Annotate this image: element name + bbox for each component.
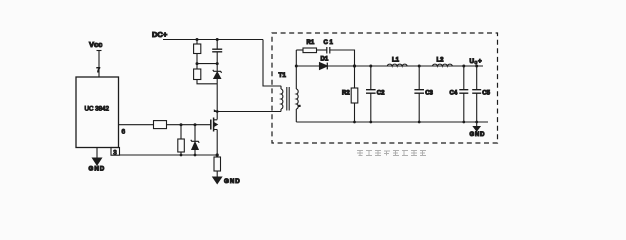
transformer T1 primary winding — [281, 86, 283, 112]
wire C4 top — [463, 66, 465, 90]
wire C2 top — [370, 66, 372, 90]
node C4 top — [462, 65, 465, 68]
node C3 top — [418, 65, 421, 68]
wire C2 bottom — [370, 93, 372, 122]
svg-text:C 1: C 1 — [324, 40, 334, 46]
svg-text:GND: GND — [470, 132, 486, 138]
svg-text:DC+: DC+ — [152, 30, 168, 39]
node between snubber resistors — [196, 62, 199, 65]
svg-text:D1: D1 — [321, 57, 329, 63]
pin 7 label — [97, 67, 101, 74]
svg-text:T1: T1 — [279, 72, 287, 79]
wire R1 to C1 — [317, 49, 327, 51]
wire gate resistor to MOSFET gate — [167, 124, 211, 126]
node Uo+ output terminal — [470, 58, 483, 66]
resistor R source (vertical) — [214, 157, 221, 171]
resistor R snub1 (vertical) — [194, 44, 201, 54]
wire C4 bottom — [463, 93, 465, 122]
transformer T1 label — [279, 72, 287, 79]
wire R snub2 bottom to clamp column — [197, 80, 217, 84]
svg-text:L1: L1 — [392, 58, 400, 64]
Vcc label — [89, 40, 102, 49]
wire R snub1 to R snub2 — [196, 54, 198, 70]
wire lower rail from pin 3 to source — [120, 154, 218, 156]
dashed output filter box — [272, 33, 498, 143]
wire R source to ground — [216, 171, 218, 177]
wire C1 to right corner of snubber — [330, 50, 355, 66]
node C5 top — [475, 65, 478, 68]
transistor Q1 MOSFET — [211, 118, 217, 132]
wire clamp cap to zener — [216, 52, 218, 72]
svg-text:UC 3842: UC 3842 — [85, 106, 110, 113]
DC+ label — [152, 30, 168, 39]
node tie on clamp column — [216, 62, 219, 65]
svg-text:3: 3 — [113, 150, 117, 157]
wire rail to R snub1 — [196, 40, 198, 45]
svg-text:Vcc: Vcc — [89, 40, 102, 49]
svg-text:GND: GND — [224, 178, 241, 185]
node R2 on bottom rail — [353, 121, 356, 124]
capacitor C5 — [472, 90, 490, 97]
wire rail to clamp cap — [216, 40, 218, 50]
svg-text:+: + — [478, 58, 482, 65]
node C4 on bottom rail — [462, 121, 465, 124]
zener diode clamp — [213, 70, 222, 79]
op-amp U1 UC3842 PWM controller box — [76, 77, 119, 148]
diode D1 — [320, 57, 329, 70]
svg-text:6: 6 — [122, 129, 126, 136]
wire IC bottom to ground — [96, 148, 98, 159]
wire output bottom rail — [296, 121, 488, 123]
wire gate junction down to R gs — [180, 125, 182, 139]
wire zener to lower rail — [194, 150, 196, 156]
wire source to lower rail — [216, 130, 218, 158]
wire drain node to primary bottom — [217, 111, 281, 113]
resistor R2 (vertical) — [342, 88, 358, 103]
svg-text:C2: C2 — [377, 91, 385, 97]
pin 6 label — [122, 129, 126, 136]
svg-text:R2: R2 — [342, 91, 350, 97]
node snubber resistor branch on rail — [196, 38, 199, 41]
wire zener to drain node — [216, 78, 218, 119]
Vcc terminal tick — [97, 50, 102, 52]
wire C3 top — [418, 66, 420, 90]
transformer T1 secondary winding — [296, 89, 298, 109]
wire tie between snubber columns — [197, 63, 217, 65]
capacitor C3 — [414, 90, 433, 97]
wire C3 bottom — [418, 93, 420, 122]
wire R gs to lower rail — [180, 152, 182, 155]
svg-text:R1: R1 — [307, 40, 315, 46]
pin 3 notch — [111, 148, 120, 157]
wire node down to R2 — [354, 66, 356, 88]
wire secondary bottom to output rail — [295, 109, 297, 122]
ground (source) — [213, 177, 241, 185]
resistor R gs (vertical) — [178, 139, 185, 152]
wire snubber top left — [296, 49, 303, 51]
wire C5 top — [476, 66, 478, 90]
transformer T1 core — [287, 87, 289, 111]
inductor L1 — [387, 58, 407, 67]
svg-text:C5: C5 — [482, 91, 490, 97]
wire C5 bottom — [476, 93, 478, 122]
wire Vcc to pin 7 — [98, 51, 100, 78]
svg-text:C4: C4 — [450, 91, 458, 97]
caption: output rectifier filter circuit (blurred gray) — [357, 151, 426, 156]
node source on rail — [216, 153, 219, 156]
node R gs on rail — [180, 154, 183, 157]
node drain junction — [214, 109, 219, 113]
wire pin 6 to gate resistor — [119, 124, 154, 126]
node clamp cap on rail — [216, 38, 219, 41]
ground (IC) — [89, 158, 106, 173]
node D1 output — [353, 64, 356, 67]
transformer polarity dot — [298, 105, 300, 107]
node C5 on bottom rail — [475, 121, 478, 124]
wire to D1 anode — [296, 65, 319, 67]
resistor R1 — [303, 40, 317, 53]
capacitor C2 — [366, 90, 385, 97]
svg-text:C3: C3 — [425, 91, 433, 97]
wire R2 to bottom rail — [354, 103, 356, 122]
node zener on rail — [194, 154, 197, 157]
resistor R snub2 (vertical) — [194, 69, 201, 80]
node gate-R junction — [180, 123, 183, 126]
capacitor C4 — [450, 90, 469, 97]
svg-text:GND: GND — [89, 166, 106, 173]
node C2 on bottom rail — [369, 121, 372, 124]
node C2 top — [369, 65, 372, 68]
svg-text:L2: L2 — [437, 58, 445, 64]
node gate-zener junction — [194, 123, 197, 126]
node C3 on bottom rail — [418, 121, 421, 124]
node secondary-top / D1 anode — [295, 65, 298, 68]
wire DC+ top rail — [163, 39, 263, 41]
wire top rail down to primary top — [263, 40, 281, 87]
wire gate junction down to zener gs — [194, 125, 196, 142]
resistor R gate (horizontal) — [154, 121, 167, 129]
wire D1 cathode to output node — [327, 65, 354, 67]
svg-text:7: 7 — [97, 67, 101, 74]
inductor L2 — [432, 58, 452, 67]
capacitor C clamp — [212, 49, 222, 52]
zener diode gate-source — [191, 140, 199, 150]
wire secondary top to snubber — [295, 50, 297, 89]
wire output top rail — [355, 65, 484, 67]
capacitor C1 — [324, 40, 334, 54]
ground (output GND) — [470, 122, 486, 138]
